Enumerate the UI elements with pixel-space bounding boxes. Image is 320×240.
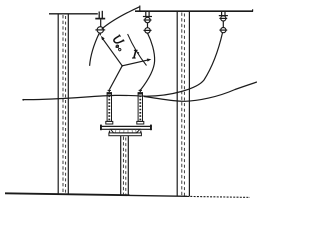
low line sagging then rising to right edge — [144, 82, 257, 101]
node: arrow vertex — [121, 65, 123, 67]
left pole — [58, 14, 68, 194]
stand pole — [121, 136, 129, 196]
end dot of low line — [22, 99, 24, 101]
jumper loop near beam start — [128, 34, 147, 66]
label U_f-0 — [113, 35, 125, 47]
insulator string 2 (right beam, right) — [219, 11, 228, 33]
wire: vertex down to left bushing — [110, 66, 123, 90]
tie tick at beam left end — [139, 6, 141, 12]
arrow Uf-0 (vertex to left insulator) — [101, 36, 122, 66]
slack jumper hanging from left insulator — [90, 33, 100, 66]
label I — [132, 50, 139, 58]
tank dome — [111, 129, 140, 133]
arrow I (vertex to right jumper) — [122, 59, 151, 66]
mounting beam — [100, 125, 152, 131]
insulator string 1 (right beam, left) — [143, 11, 152, 33]
left pole cross-arm — [49, 13, 98, 15]
jumper: insulator 1 down to right bushing — [140, 33, 154, 90]
ground line — [5, 193, 130, 195]
wire: left insulator up to beam end — [102, 7, 140, 29]
transformer left bushing — [106, 89, 113, 124]
right cross-beam (line support bar) — [135, 10, 253, 12]
long jumper arc from insulator 2 to transformer — [146, 33, 223, 96]
insulator string (left pole arm) — [95, 11, 105, 36]
right pole — [177, 11, 189, 196]
low line crossing left span — [23, 95, 146, 99]
stand top plate — [109, 131, 141, 136]
transformer right bushing — [137, 89, 144, 124]
